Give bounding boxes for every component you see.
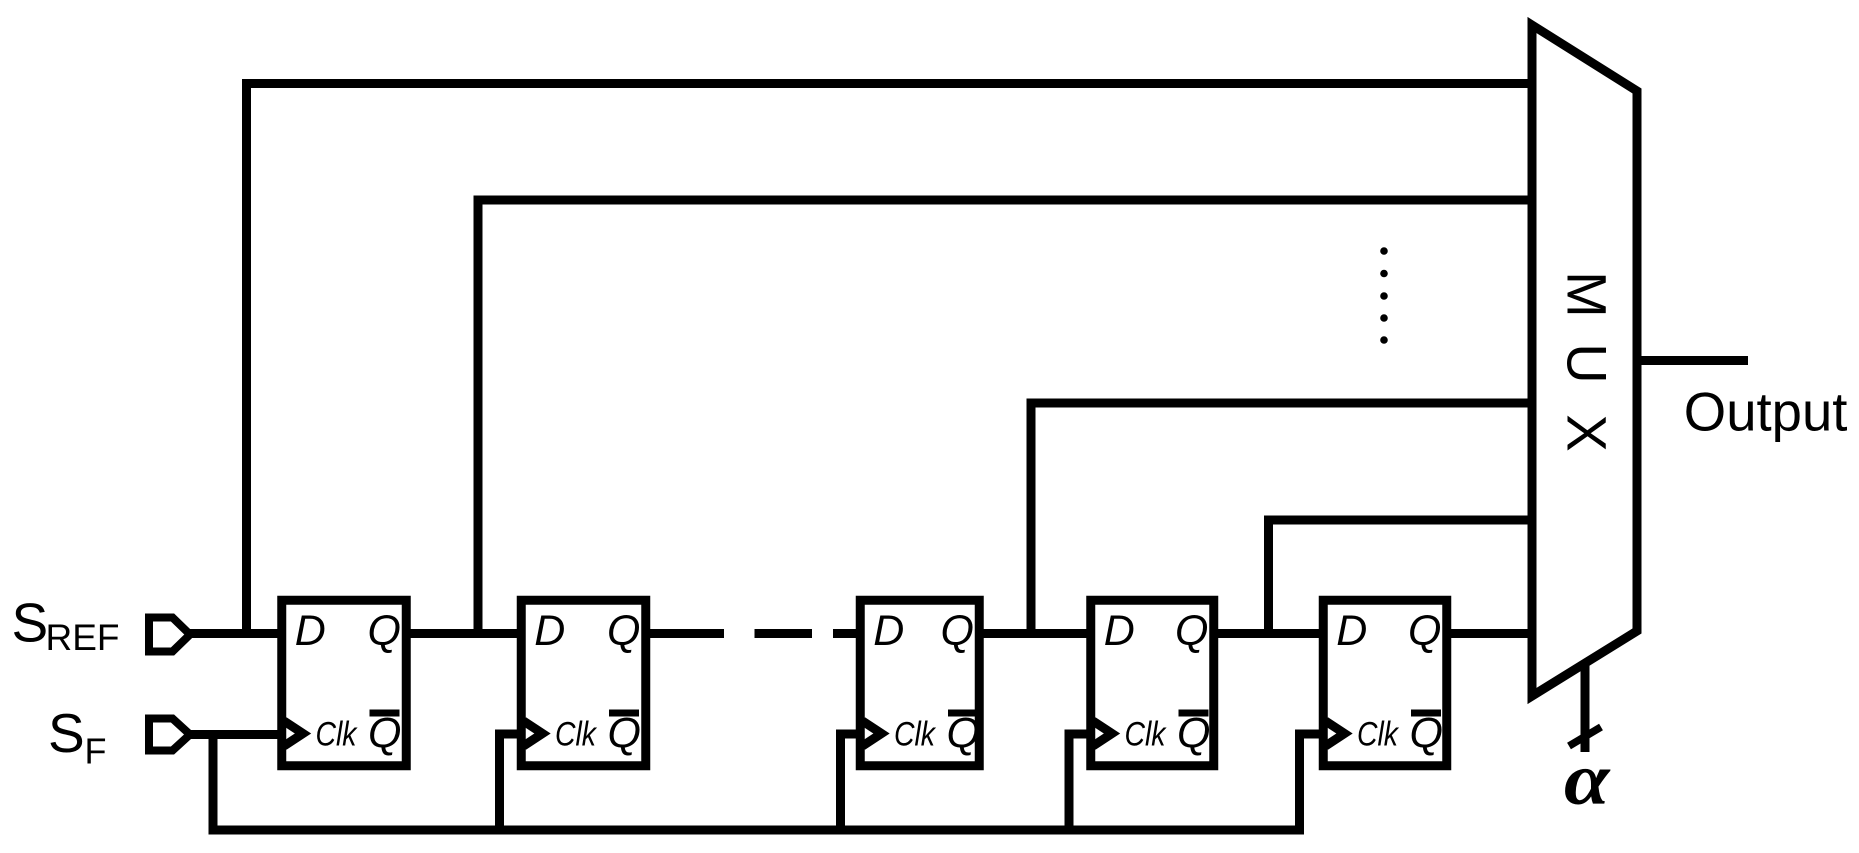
svg-text:Q: Q (368, 607, 401, 655)
svg-text:U: U (1556, 343, 1619, 383)
wire U1 Q to U2 D (411, 629, 518, 638)
flip-flop U1 (282, 600, 407, 766)
wire MUX output (1637, 356, 1748, 365)
svg-text:D: D (295, 607, 326, 655)
svg-text:D: D (1104, 607, 1135, 655)
wire dash segment b (833, 629, 856, 638)
svg-text:Clk: Clk (894, 716, 937, 754)
pin label Qbar overline (948, 710, 978, 717)
svg-text:F: F (85, 731, 107, 772)
svg-text:Q: Q (947, 710, 980, 758)
svg-text:Q: Q (1175, 607, 1208, 655)
clock edge chevron (524, 721, 543, 746)
clock edge chevron (1093, 721, 1112, 746)
svg-text:α: α (1564, 739, 1611, 821)
wire MUX select (1581, 662, 1590, 752)
svg-text:REF: REF (46, 617, 120, 658)
pin label Qbar overline (609, 710, 639, 717)
wire tap1 up to MUX input 1 (247, 84, 1533, 634)
pin label Qbar overline (1411, 710, 1441, 717)
svg-text:Q: Q (1408, 607, 1441, 655)
wire U3 Q to U4 D (984, 629, 1087, 638)
node S_F label (48, 702, 107, 772)
wire clock bus with riser to U5 Clk (213, 734, 1323, 830)
input port S_REF (149, 618, 190, 652)
pin label Qbar overline (1179, 710, 1209, 717)
svg-text:M: M (1556, 271, 1619, 318)
svg-text:S: S (48, 702, 85, 764)
node S_REF label (12, 592, 120, 659)
flip-flop U4 (1091, 600, 1214, 766)
ellipsis dots between MUX inputs (1380, 247, 1388, 344)
svg-text:Q: Q (607, 607, 640, 655)
flip-flop U3 (860, 600, 980, 766)
wire clock riser to U2 Clk (500, 734, 522, 830)
clock edge chevron (863, 721, 882, 746)
svg-text:D: D (1336, 607, 1367, 655)
wire clock riser to U3 Clk (841, 734, 861, 830)
svg-text:Q: Q (941, 607, 974, 655)
svg-text:D: D (873, 607, 904, 655)
wire U5 Q to MUX input 5 (1451, 629, 1532, 638)
input port S_F (149, 719, 190, 751)
bus slash tick (1569, 727, 1601, 746)
svg-text:Q: Q (1177, 710, 1210, 758)
wire clock riser to U4 Clk (1069, 734, 1091, 830)
svg-text:Clk: Clk (1357, 716, 1400, 754)
clock edge chevron (1326, 721, 1345, 746)
wire tap4 up to MUX input 4 (1269, 520, 1533, 634)
svg-text:Q: Q (368, 710, 401, 758)
node Output label (1684, 382, 1848, 443)
wire S_F to U1 Clk (190, 730, 281, 739)
wire U4 Q to U5 D (1218, 629, 1319, 638)
wire tap3 up to MUX input 3 (1031, 403, 1532, 634)
svg-text:S: S (12, 592, 49, 654)
wire tap2 up to MUX input 2 (478, 200, 1532, 634)
flip-flop U5 (1323, 600, 1447, 766)
svg-text:Q: Q (608, 710, 641, 758)
svg-text:D: D (534, 607, 565, 655)
svg-text:Clk: Clk (555, 716, 598, 754)
wire U2 Q lead (650, 629, 724, 638)
flip-flop U2 (521, 600, 646, 766)
wire dash segment a (755, 629, 813, 638)
wire S_REF to U1 D input (190, 629, 278, 638)
svg-text:Q: Q (1410, 710, 1443, 758)
clock edge chevron (284, 721, 303, 746)
svg-text:Clk: Clk (316, 716, 359, 754)
svg-text:Clk: Clk (1125, 716, 1168, 754)
svg-text:Output: Output (1684, 382, 1848, 443)
node alpha label (1564, 739, 1611, 821)
pin label Qbar overline (370, 710, 400, 717)
mux U6 (1532, 25, 1637, 696)
svg-text:X: X (1556, 414, 1619, 451)
